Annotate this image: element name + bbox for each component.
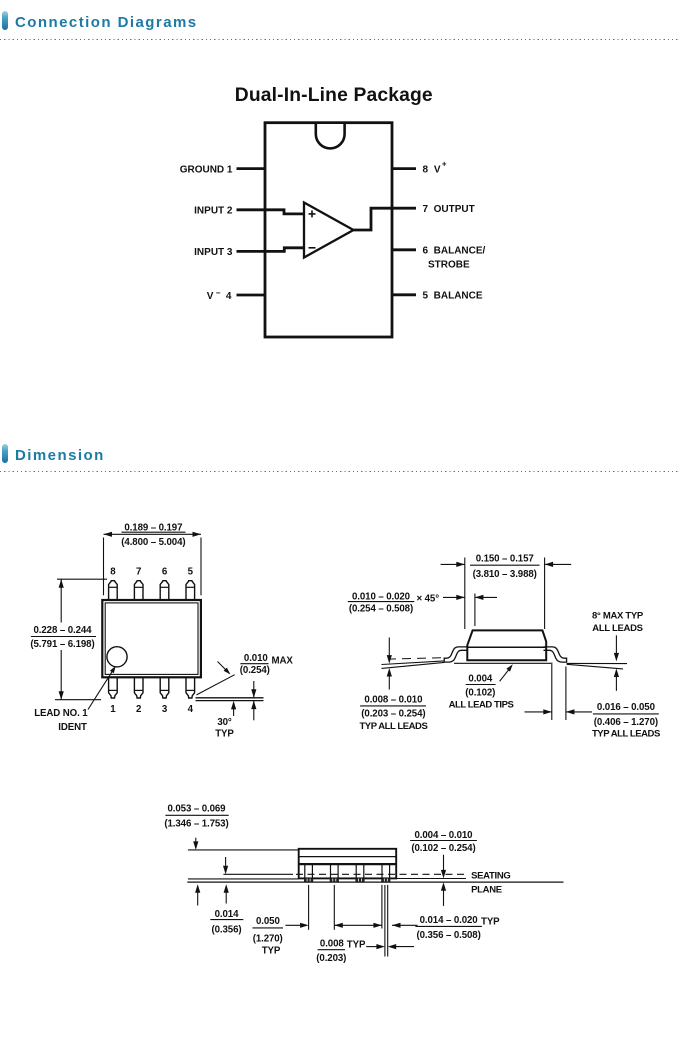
pin number 6 bbox=[162, 567, 168, 578]
seating plane line bbox=[187, 881, 563, 883]
left gull-wing lead bbox=[444, 647, 467, 662]
pin number 5 bbox=[188, 567, 194, 578]
pin number 4 bbox=[188, 704, 194, 715]
label 0.228-0.244 bbox=[30, 625, 96, 650]
svg-text:(1.346 – 1.753): (1.346 – 1.753) bbox=[164, 819, 228, 830]
pin 7 lead (top view) bbox=[134, 581, 143, 600]
svg-text:30°: 30° bbox=[217, 717, 232, 728]
right wedge angle arrows bbox=[614, 635, 619, 691]
base plane dash line bbox=[223, 873, 466, 875]
svg-text:TYP: TYP bbox=[347, 940, 366, 951]
pin number 2 bbox=[136, 704, 141, 715]
pin 2 lead (top view) bbox=[134, 677, 143, 698]
svg-text:0.010 – 0.020: 0.010 – 0.020 bbox=[352, 591, 410, 602]
svg-text:0.053 – 0.069: 0.053 – 0.069 bbox=[168, 803, 227, 814]
label 7 OUTPUT bbox=[423, 204, 475, 215]
pin 5 lead (top view) bbox=[186, 581, 195, 600]
left seating wedge lines bbox=[382, 658, 445, 669]
wire pin 6 BALANCE/STROBE bbox=[392, 248, 416, 251]
pin 3 lead (top view) bbox=[160, 677, 169, 698]
label 0.008-0.010 TYP ALL LEADS bbox=[359, 694, 427, 731]
package body front view bbox=[299, 849, 397, 879]
connection diagram SVG bbox=[0, 60, 680, 440]
svg-text:3: 3 bbox=[162, 704, 168, 715]
front view lead 3 bbox=[355, 864, 364, 882]
package top reference line bbox=[188, 849, 299, 851]
svg-text:0.150 – 0.157: 0.150 – 0.157 bbox=[476, 553, 534, 564]
dimension drawings SVG bbox=[0, 480, 680, 1037]
svg-text:IDENT: IDENT bbox=[58, 722, 87, 733]
svg-text:8° MAX TYP: 8° MAX TYP bbox=[592, 611, 644, 622]
svg-text:5: 5 bbox=[188, 567, 194, 578]
svg-text:Dual-In-Line Package: Dual-In-Line Package bbox=[235, 85, 433, 106]
label V- 4 bbox=[207, 288, 232, 302]
svg-text:5BALANCE: 5BALANCE bbox=[423, 291, 483, 302]
label 8 MAX TYP ALL LEADS bbox=[592, 611, 644, 634]
dimension 0.150-0.157 bbox=[441, 558, 572, 630]
label 5 BALANCE bbox=[423, 291, 483, 302]
leader LEAD NO.1 IDENT bbox=[88, 666, 116, 710]
label 0.010-0.020 x45 bbox=[348, 591, 439, 614]
section header: Connection Diagrams bbox=[0, 10, 680, 12]
dimension 0.050 pitch bbox=[286, 923, 382, 928]
svg-text:6BALANCE/: 6BALANCE/ bbox=[423, 246, 486, 257]
svg-text:INPUT 3: INPUT 3 bbox=[194, 247, 233, 258]
dimension 0.008 lead thickness bbox=[366, 944, 414, 949]
svg-text:(3.810 – 3.988): (3.810 – 3.988) bbox=[473, 569, 537, 580]
svg-text:0.004: 0.004 bbox=[468, 673, 492, 684]
label 6 BALANCE/ STROBE bbox=[423, 246, 486, 271]
svg-text:(0.254): (0.254) bbox=[240, 665, 270, 676]
svg-text:0.016 – 0.050: 0.016 – 0.050 bbox=[597, 702, 655, 713]
dotted rule bbox=[0, 39, 680, 41]
svg-text:0.014: 0.014 bbox=[215, 909, 239, 920]
lead tips reference line bbox=[188, 878, 466, 880]
svg-text:7OUTPUT: 7OUTPUT bbox=[423, 204, 475, 215]
svg-text:(0.406 – 1.270): (0.406 – 1.270) bbox=[594, 717, 658, 728]
title Dual-In-Line Package bbox=[235, 85, 433, 106]
svg-text:MAX: MAX bbox=[272, 656, 294, 667]
svg-text:PLANE: PLANE bbox=[471, 884, 502, 895]
dimension lead thickness arrows bbox=[251, 681, 256, 720]
dimension 0.014 arrows bbox=[223, 857, 229, 904]
dimension 0.014-0.020 lead width bbox=[392, 923, 418, 928]
leader 0.004 arrow bbox=[500, 664, 513, 681]
svg-text:(4.800 – 5.004): (4.800 – 5.004) bbox=[121, 537, 185, 548]
label 0.189-0.197 bbox=[121, 522, 185, 548]
package body side view bbox=[467, 630, 546, 660]
right gull-wing lead bbox=[544, 647, 567, 662]
label 0.014 bbox=[210, 909, 243, 935]
pin number 1 bbox=[110, 704, 116, 715]
svg-text:(0.102): (0.102) bbox=[465, 688, 495, 699]
svg-text:ALL LEAD TIPS: ALL LEAD TIPS bbox=[449, 700, 514, 711]
label SEATING PLANE bbox=[471, 870, 510, 895]
svg-text:TYP ALL LEADS: TYP ALL LEADS bbox=[359, 721, 427, 732]
wire pin 4 V- bbox=[237, 294, 266, 297]
svg-text:(0.254 – 0.508): (0.254 – 0.508) bbox=[349, 603, 413, 614]
label LEAD NO.1 IDENT bbox=[34, 708, 88, 733]
lead no.1 ident circle bbox=[107, 647, 127, 667]
label 0.004-0.010 bbox=[410, 830, 477, 854]
label 0.053-0.069 bbox=[164, 803, 228, 829]
svg-text:TYP: TYP bbox=[481, 917, 500, 928]
svg-text:(1.270): (1.270) bbox=[253, 933, 283, 944]
label INPUT 3 bbox=[194, 247, 233, 258]
svg-text:0.050: 0.050 bbox=[256, 916, 280, 927]
dimension 0.189-0.197 width arrow bbox=[104, 532, 202, 596]
svg-text:0.008 – 0.010: 0.008 – 0.010 bbox=[364, 694, 422, 705]
svg-text:TYP ALL LEADS: TYP ALL LEADS bbox=[592, 729, 660, 740]
svg-text:4: 4 bbox=[188, 704, 194, 715]
label 8 V+ bbox=[423, 160, 447, 176]
pin-1 index notch bbox=[316, 124, 345, 148]
svg-text:0.010: 0.010 bbox=[244, 653, 268, 664]
pin number 8 bbox=[110, 567, 116, 578]
right seating wedge lines bbox=[567, 663, 627, 669]
svg-text:× 45°: × 45° bbox=[417, 593, 440, 604]
section header: Dimension bbox=[0, 443, 680, 445]
svg-text:(0.203): (0.203) bbox=[316, 953, 346, 964]
label 0.008 TYP bbox=[316, 938, 366, 964]
svg-text:0.228 – 0.244: 0.228 – 0.244 bbox=[34, 625, 93, 636]
wire pin 2 INPUT to + bbox=[237, 210, 305, 214]
svg-text:2: 2 bbox=[136, 704, 141, 715]
front view lead 1 bbox=[304, 864, 313, 882]
front view lead 4 bbox=[381, 864, 390, 882]
label 0.014-0.020 TYP bbox=[415, 915, 500, 941]
label 0.050 TYP bbox=[252, 916, 283, 956]
svg-text:(5.791 – 6.198): (5.791 – 6.198) bbox=[30, 639, 94, 650]
svg-text:LEAD NO. 1: LEAD NO. 1 bbox=[34, 708, 88, 719]
svg-text:SEATING: SEATING bbox=[471, 870, 510, 881]
label 0.010 MAX bbox=[240, 653, 294, 676]
leader arrow to lead tip bbox=[218, 662, 231, 675]
svg-text:GROUND 1: GROUND 1 bbox=[180, 165, 233, 176]
svg-text:INPUT 2: INPUT 2 bbox=[194, 206, 233, 217]
label 0.150-0.157 bbox=[470, 553, 540, 580]
pin 4 lead (top view) bbox=[186, 677, 195, 698]
svg-text:0.189 – 0.197: 0.189 – 0.197 bbox=[124, 522, 182, 533]
label GROUND 1 bbox=[180, 165, 233, 176]
dimension 0.010-0.020 x45 chamfer bbox=[443, 594, 497, 627]
IC package outline U1 bbox=[265, 123, 392, 337]
label 0.004 ALL LEAD TIPS bbox=[449, 673, 514, 710]
pin 8 lead (top view) bbox=[109, 581, 118, 600]
svg-text:7: 7 bbox=[136, 567, 141, 578]
wire pin 5 BALANCE bbox=[392, 293, 416, 296]
svg-text:8: 8 bbox=[110, 567, 116, 578]
op-amp minus input marker bbox=[309, 247, 316, 249]
svg-text:8V+: 8V+ bbox=[423, 160, 447, 176]
svg-text:0.004 – 0.010: 0.004 – 0.010 bbox=[415, 830, 473, 841]
label 0.016-0.050 TYP ALL LEADS bbox=[592, 702, 660, 740]
dimension 0.004-0.010 arrows bbox=[441, 855, 446, 906]
svg-text:0.008: 0.008 bbox=[320, 938, 344, 949]
pin 1 lead (top view) bbox=[109, 677, 118, 698]
front view lead 2 bbox=[330, 864, 339, 882]
label 30 TYP bbox=[215, 701, 236, 739]
wire pin 3 INPUT to - bbox=[237, 248, 305, 252]
lead tips line bbox=[454, 662, 551, 664]
svg-text:1: 1 bbox=[110, 704, 116, 715]
svg-text:STROBE: STROBE bbox=[428, 259, 470, 270]
dotted rule bbox=[0, 471, 680, 473]
svg-text:(0.102 – 0.254): (0.102 – 0.254) bbox=[411, 843, 475, 854]
svg-text:6: 6 bbox=[162, 567, 168, 578]
svg-text:0.014 – 0.020: 0.014 – 0.020 bbox=[420, 915, 478, 926]
svg-text:(0.203 – 0.254): (0.203 – 0.254) bbox=[361, 709, 425, 720]
svg-text:V − 4: V − 4 bbox=[207, 288, 232, 302]
left wedge angle arrows bbox=[387, 638, 392, 690]
wire pin 1 GROUND bbox=[237, 167, 266, 170]
dimension 0.016-0.050 foot length bbox=[525, 663, 593, 721]
svg-text:(0.356): (0.356) bbox=[212, 924, 242, 935]
pin number 7 bbox=[136, 567, 141, 578]
pin 6 lead (top view) bbox=[160, 581, 169, 600]
wire pin 7 OUTPUT from op-amp bbox=[354, 208, 417, 230]
wire pin 8 V+ bbox=[392, 167, 416, 170]
op-amp U1 triangle bbox=[304, 203, 354, 258]
lead angle reference lines bbox=[196, 675, 264, 701]
svg-text:ALL LEADS: ALL LEADS bbox=[592, 623, 642, 634]
label INPUT 2 bbox=[194, 206, 233, 217]
dimension 0.228-0.244 height arrow bbox=[55, 579, 107, 700]
svg-text:TYP: TYP bbox=[262, 945, 281, 956]
package body top view bbox=[102, 600, 201, 677]
svg-text:TYP: TYP bbox=[215, 728, 234, 739]
svg-text:(0.356 – 0.508): (0.356 – 0.508) bbox=[416, 930, 480, 941]
lead width extension lines bbox=[382, 885, 388, 957]
pin number 3 bbox=[162, 704, 168, 715]
pin centerline extensions bbox=[309, 885, 335, 930]
op-amp plus input marker bbox=[309, 210, 316, 217]
dimension 0.053-0.069 overall height bbox=[193, 838, 200, 906]
